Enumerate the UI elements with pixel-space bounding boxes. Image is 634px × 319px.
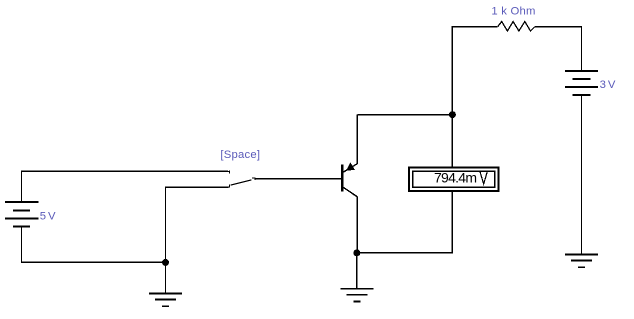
voltmeter unit V — [480, 172, 487, 185]
svg-text:1 k Ohm: 1 k Ohm — [491, 5, 535, 17]
wire voltmeter U1 to node C — [357, 191, 453, 253]
node A junction dot — [162, 259, 169, 266]
ground GND2 — [340, 289, 373, 302]
ground GND3 — [565, 254, 598, 267]
switch J1 throw 2 pin — [228, 185, 229, 188]
svg-text:3 V: 3 V — [600, 79, 616, 91]
voltmeter U1 outer box — [409, 167, 499, 191]
switch J1 throw 1 pin — [228, 171, 230, 174]
wire node C to ground GND2 — [356, 253, 358, 289]
voltmeter U1 inner box — [413, 171, 495, 187]
wire node A to ground GND1 — [165, 262, 167, 293]
wire Q1 collector to node B — [357, 114, 452, 116]
wire battery V2 to ground GND3 — [581, 96, 583, 254]
wire resistor R1 to battery V2 — [535, 27, 582, 71]
switch J1 pole contact — [252, 178, 255, 180]
transistor Q1 upper branch — [343, 115, 357, 173]
switch J1 lever — [230, 180, 251, 185]
wire node B to voltmeter U1 — [451, 115, 453, 168]
transistor Q1 arrow — [346, 162, 355, 171]
svg-text:794.4m: 794.4m — [434, 170, 477, 186]
resistor R1 — [498, 22, 535, 32]
battery V1 — [5, 202, 39, 227]
wire switch pole to transistor Q1 base — [255, 178, 341, 180]
transistor Q1 base bar — [341, 164, 343, 191]
wire battery V1 bottom to node A — [22, 228, 166, 263]
wire node B to resistor R1 — [452, 27, 497, 115]
transistor Q1 lower branch — [343, 187, 357, 253]
ground GND1 — [149, 293, 182, 306]
wire node A to switch throw 2 — [166, 187, 229, 262]
svg-text:5 V: 5 V — [40, 210, 56, 222]
wire battery V1 top to switch throw 1 — [22, 171, 229, 201]
node C junction dot — [353, 249, 360, 256]
node B junction dot — [449, 111, 456, 118]
svg-text:[Space]: [Space] — [220, 149, 260, 161]
battery V2 — [565, 71, 598, 95]
